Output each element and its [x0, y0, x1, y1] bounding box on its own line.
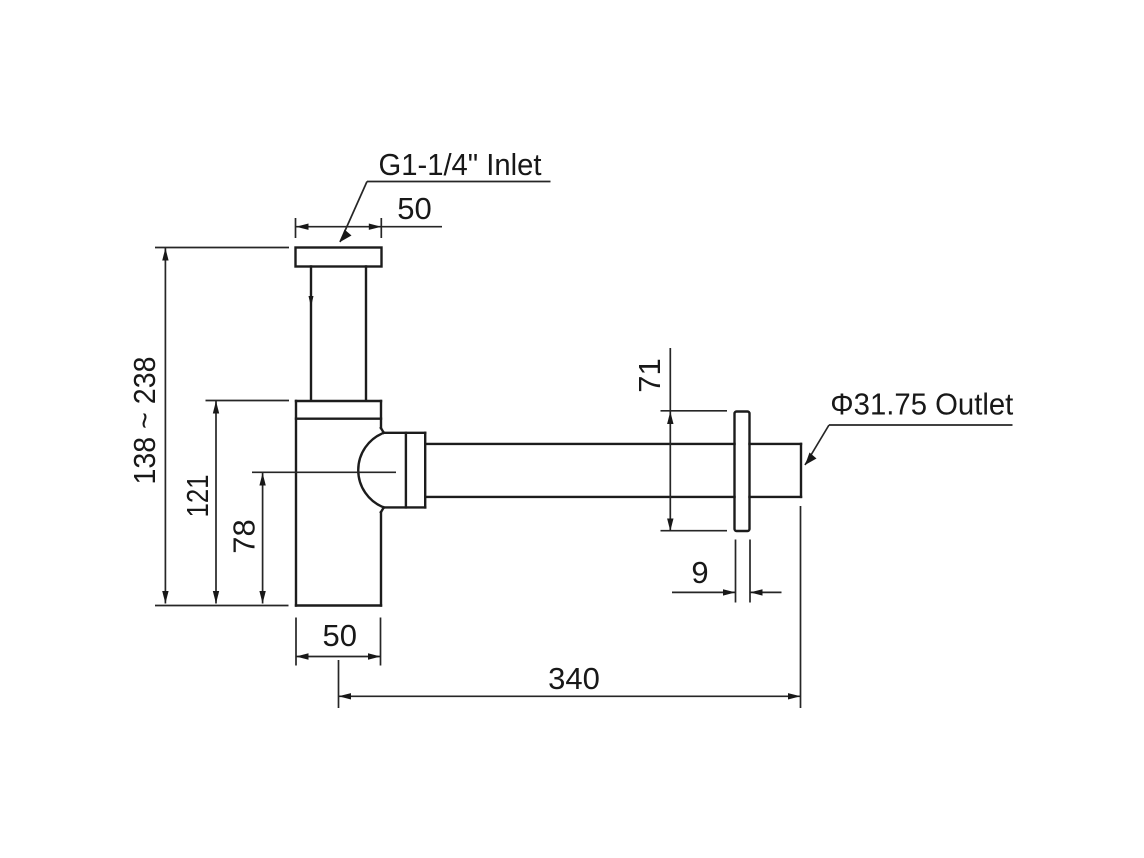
svg-text:Φ31.75 Outlet: Φ31.75 Outlet — [830, 387, 1013, 422]
svg-text:340: 340 — [548, 661, 600, 696]
svg-text:71: 71 — [632, 358, 667, 392]
svg-text:G1-1/4" Inlet: G1-1/4" Inlet — [379, 147, 542, 182]
svg-text:121: 121 — [180, 475, 215, 518]
svg-text:138 ~ 238: 138 ~ 238 — [127, 357, 162, 485]
svg-text:78: 78 — [227, 519, 262, 553]
svg-text:50: 50 — [397, 191, 431, 226]
svg-text:50: 50 — [323, 618, 357, 653]
svg-text:9: 9 — [691, 555, 708, 590]
